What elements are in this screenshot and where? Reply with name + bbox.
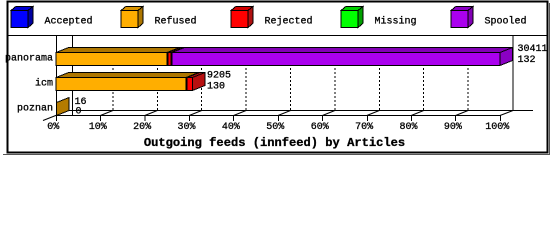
svg-text:80%: 80% — [399, 122, 417, 133]
svg-text:132: 132 — [518, 55, 536, 66]
svg-text:panorama: panorama — [5, 53, 53, 64]
dashed gridlines 10%..90% — [112, 48, 114, 110]
bar panorama: rejected segment (red) — [168, 48, 184, 66]
svg-text:0: 0 — [76, 106, 82, 117]
svg-text:10%: 10% — [89, 122, 107, 133]
legend cube Rejected (red) — [231, 6, 253, 27]
y-axis vertical (front) — [56, 36, 58, 121]
x-axis tick diagonals — [100, 111, 468, 116]
svg-text:50%: 50% — [266, 122, 284, 133]
legend cube Spooled (purple) — [451, 6, 473, 27]
back axis — [68, 110, 533, 112]
left corner depth edge extended — [43, 111, 69, 121]
svg-text:Rejected: Rejected — [265, 15, 313, 27]
solid gridline 100% — [512, 36, 514, 110]
bar icm: rejected segment (red) — [187, 73, 205, 91]
svg-text:Spooled: Spooled — [485, 15, 527, 27]
bar poznan: tiny refused bar (dark orange side face) — [57, 98, 70, 116]
bar icm: refused segment (orange) — [56, 73, 199, 91]
image edge shadow right/bottom — [549, 3, 550, 155]
inner vertical axis line — [72, 36, 74, 115]
x-axis tick verticals — [101, 115, 501, 121]
front axis — [56, 115, 500, 117]
right corner depth edge — [500, 111, 513, 116]
legend cube Accepted (blue) — [11, 6, 33, 27]
bar panorama: spooled segment (purple) — [172, 48, 513, 66]
svg-text:70%: 70% — [355, 122, 373, 133]
svg-text:Refused: Refused — [155, 15, 197, 27]
legend/chart separator — [7, 35, 548, 37]
svg-text:40%: 40% — [222, 122, 240, 133]
bar panorama: refused segment (orange) — [56, 48, 180, 66]
svg-text:Missing: Missing — [375, 15, 417, 27]
outer frame — [8, 2, 548, 153]
svg-text:poznan: poznan — [17, 103, 53, 114]
svg-text:9205: 9205 — [207, 70, 231, 81]
svg-text:Outgoing feeds (innfeed) by Ar: Outgoing feeds (innfeed) by Articles — [144, 136, 405, 150]
svg-text:60%: 60% — [311, 122, 329, 133]
legend cube Refused (orange) — [121, 6, 143, 27]
svg-text:30%: 30% — [177, 122, 195, 133]
svg-text:30411: 30411 — [518, 44, 548, 55]
svg-text:90%: 90% — [444, 122, 462, 133]
svg-text:0%: 0% — [47, 122, 59, 133]
svg-text:icm: icm — [35, 77, 53, 89]
svg-text:100%: 100% — [485, 122, 509, 133]
svg-text:130: 130 — [207, 82, 225, 93]
svg-text:20%: 20% — [133, 122, 151, 133]
svg-text:Accepted: Accepted — [45, 15, 93, 27]
legend cube Missing (green) — [341, 6, 363, 27]
